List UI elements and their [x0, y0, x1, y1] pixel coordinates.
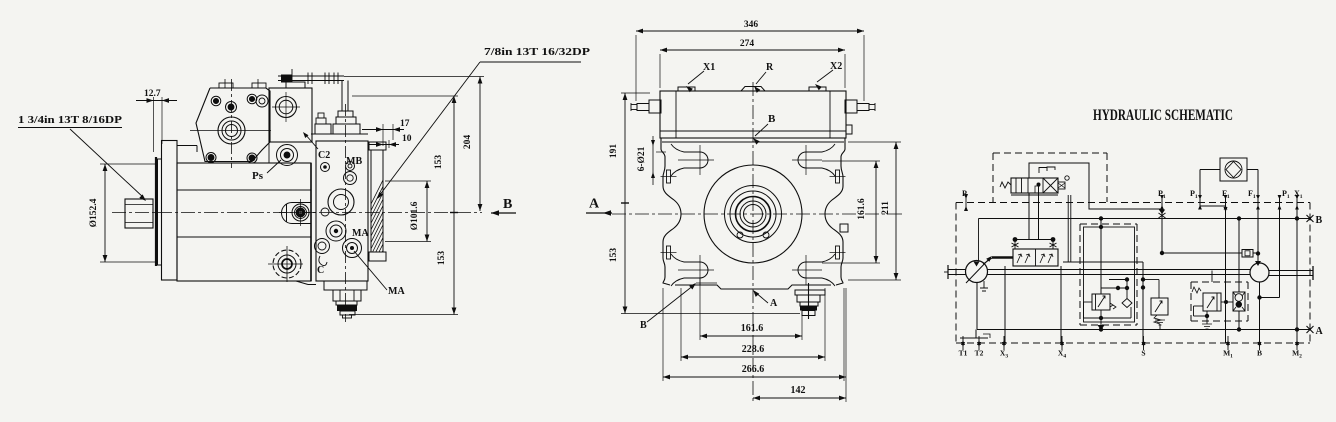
svg-text:B: B — [1257, 349, 1262, 358]
svg-text:17: 17 — [400, 119, 410, 129]
svg-text:R: R — [766, 62, 774, 73]
svg-text:T1: T1 — [959, 349, 968, 358]
svg-text:161.6: 161.6 — [741, 323, 764, 334]
svg-text:MB: MB — [346, 156, 362, 167]
svg-text:1 3/4in 13T 8/16DP: 1 3/4in 13T 8/16DP — [18, 115, 123, 126]
svg-text:7/8in 13T 16/32DP: 7/8in 13T 16/32DP — [484, 47, 591, 58]
svg-text:X1: X1 — [703, 62, 715, 73]
svg-text:B: B — [768, 113, 776, 125]
svg-text:153: 153 — [437, 251, 447, 266]
svg-text:153: 153 — [609, 248, 619, 263]
svg-text:228.6: 228.6 — [742, 344, 765, 355]
svg-text:B: B — [640, 320, 647, 331]
svg-text:Ps: Ps — [252, 170, 264, 182]
svg-text:A: A — [589, 197, 600, 212]
svg-text:204: 204 — [463, 135, 473, 150]
svg-text:MA: MA — [388, 286, 405, 297]
svg-text:C: C — [317, 265, 324, 276]
svg-text:HYDRAULIC SCHEMATIC: HYDRAULIC SCHEMATIC — [1093, 107, 1233, 124]
svg-text:161.6: 161.6 — [857, 198, 867, 220]
svg-text:142: 142 — [791, 385, 806, 396]
svg-text:266.6: 266.6 — [742, 364, 765, 375]
svg-text:Ø152.4: Ø152.4 — [89, 198, 99, 227]
svg-text:10: 10 — [402, 134, 412, 144]
svg-text:346: 346 — [744, 20, 759, 30]
svg-text:12.7: 12.7 — [144, 89, 161, 99]
svg-text:B: B — [1316, 215, 1323, 226]
svg-text:C2: C2 — [318, 150, 330, 161]
svg-text:6-Ø21: 6-Ø21 — [637, 146, 647, 171]
svg-text:153: 153 — [434, 155, 444, 170]
svg-text:MA: MA — [352, 228, 369, 239]
svg-text:Ø101.6: Ø101.6 — [410, 201, 420, 230]
svg-text:T2: T2 — [975, 349, 984, 358]
svg-text:S: S — [1141, 349, 1145, 358]
svg-text:A: A — [1316, 326, 1324, 337]
svg-text:B: B — [503, 197, 512, 212]
svg-text:A: A — [770, 298, 778, 309]
svg-text:274: 274 — [740, 39, 755, 49]
svg-text:211: 211 — [881, 201, 891, 215]
svg-text:191: 191 — [609, 144, 619, 159]
